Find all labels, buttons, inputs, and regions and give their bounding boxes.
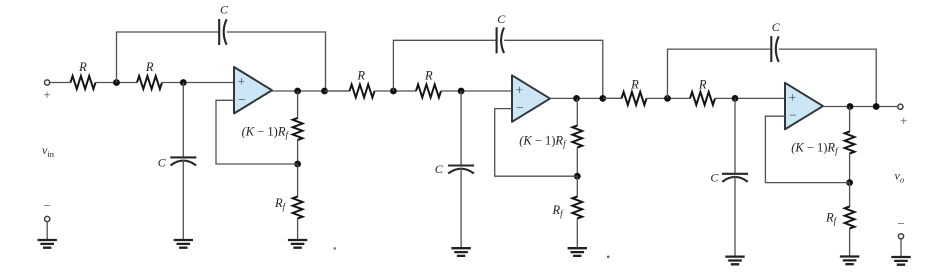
svg-text:C: C [772,20,781,34]
resistor Rf 3 [845,207,855,229]
node N [873,103,880,110]
wire node M down [849,107,851,133]
wire R3 to R4 [375,90,417,92]
svg-text:R: R [356,69,365,83]
label (K-1)Rf 3 [791,141,839,157]
node D [321,88,328,95]
feedback wire stage2 left [393,40,495,91]
wire output terminal to ground [900,239,902,257]
svg-text:R: R [630,78,639,92]
feedback wire stage3 right [779,49,876,106]
wire E to Rf1 [297,164,299,197]
svg-text:−: − [44,198,51,213]
label C5 [772,20,781,34]
feedback wire stage1 left [117,32,219,83]
node J [574,173,581,180]
feedback wire stage2 right [504,40,603,98]
wire J to U2 inverting input [495,109,578,177]
node O [846,179,853,186]
wire C2 to ground [182,160,184,241]
svg-text:C: C [158,156,167,170]
output terminal vo+ [898,104,903,109]
wire J to Rf2 [576,176,578,197]
speck 2 [607,255,610,258]
wire L down to C6 [734,98,736,173]
svg-text:Rf: Rf [825,211,838,227]
label C3 [497,12,506,26]
wire E to U1 inverting input [216,100,298,164]
capacitor C5 (feedback) [771,36,778,62]
node L [732,95,739,102]
node E [294,161,301,168]
svg-text:vo: vo [895,169,905,185]
svg-text:(K − 1)Rf: (K − 1)Rf [791,141,839,157]
feedback wire stage1 right [227,32,326,91]
node C [294,88,301,95]
svg-text:+: + [237,74,245,89]
label R6 [698,78,707,92]
svg-text:vin: vin [42,143,55,159]
wire R1 to R2 [96,82,138,84]
wire to node J [576,147,578,176]
resistor R3 [350,85,375,98]
feedback wire stage3 left [668,49,771,98]
capacitor C6 (shunt) [722,174,748,182]
node H [573,95,580,102]
wire G down to C4 [460,91,462,165]
ground (Rf3) [840,257,859,265]
label C6 [710,171,719,185]
label C2 [158,156,167,170]
resistor R5 [622,92,647,105]
label C1 [220,2,229,16]
svg-text:+: + [43,87,50,102]
wire U3 output [823,106,898,108]
wire R2 to op-amp U1 [162,82,234,84]
ground (output) [891,257,910,265]
svg-text:Rf: Rf [552,203,565,219]
svg-text:C: C [435,162,444,176]
label - (U2) [516,100,524,115]
svg-text:C: C [497,12,506,26]
resistor (K-1)Rf 2 [572,126,582,148]
ground (C6) [725,257,744,265]
label C4 [435,162,444,176]
label + (U1) [237,74,245,89]
ground (Rf1) [288,240,307,248]
wire U2 output [550,97,622,99]
label + (U2) [515,83,523,98]
svg-text:+: + [900,113,907,128]
resistor R4 [416,85,441,98]
resistor R2 [137,76,162,89]
wire node I to R5 [603,97,622,99]
node G [458,88,465,95]
wire to node E [297,140,299,165]
svg-text:C: C [710,171,719,185]
node F [390,88,397,95]
label R4 [424,69,433,83]
capacitor C1 (feedback) [219,19,226,45]
label R1 [78,60,87,74]
input low terminal [45,216,50,221]
label R5 [630,78,639,92]
resistor R1 [71,76,96,89]
node B [180,79,187,86]
ground (C4) [451,248,470,256]
resistor (K-1)Rf 1 [293,118,303,140]
svg-text:+: + [788,90,796,105]
node A [113,79,120,86]
wire terminal to ground [46,222,48,240]
wire Rf1 to ground [297,218,299,240]
svg-text:−: − [238,92,246,107]
label R2 [145,60,154,74]
label Rf 3 [825,211,838,227]
svg-text:(K − 1)Rf: (K − 1)Rf [519,133,567,149]
node I [599,95,606,102]
wire node H down [576,98,578,126]
svg-text:Rf: Rf [274,196,287,212]
wire B down to C2 [182,83,184,158]
resistor R6 [690,92,715,105]
wire R6 to op-amp U3 [715,97,785,99]
label vin [42,143,55,159]
label - (U1) [238,92,246,107]
svg-text:R: R [424,69,433,83]
output low terminal [898,234,903,239]
wire Rf2 to ground [576,218,578,248]
resistor Rf 2 [572,197,582,219]
label - (input low) [44,198,51,213]
node K [664,95,671,102]
label (K-1)Rf 2 [519,133,567,149]
label vo [895,169,905,185]
label R3 [356,69,365,83]
wire input to R1 [50,82,71,84]
svg-text:+: + [515,83,523,98]
label - (output low) [897,216,904,231]
wire Rf3 to ground [849,228,851,256]
ground (Rf2) [568,248,587,256]
wire O to U3 inverting input [765,116,849,182]
wire U1 output [272,90,350,92]
wire to node O [849,153,851,183]
wire C4 to ground [460,168,462,248]
node M [847,103,854,110]
label + (output) [900,113,907,128]
op-amp U3 [785,83,823,130]
ground (C2) [174,240,193,248]
label Rf 1 [274,196,287,212]
label (K-1)Rf 1 [242,124,290,140]
wire C6 to ground [734,176,736,257]
resistor Rf 1 [293,197,303,219]
wire node D to R3 [325,90,350,92]
svg-text:−: − [897,216,904,231]
capacitor C4 (shunt) [448,166,474,174]
label + (input) [43,87,50,102]
input terminal vin+ [45,80,50,85]
capacitor C3 (feedback) [497,27,504,53]
svg-text:R: R [78,60,87,74]
resistor (K-1)Rf 3 [845,132,855,154]
label - (U3) [789,108,797,123]
speck 1 [334,247,337,250]
wire O to Rf3 [849,183,851,207]
op-amp U1 [234,67,272,114]
svg-text:R: R [145,60,154,74]
op-amp U2 [512,75,550,122]
svg-text:−: − [789,108,797,123]
svg-text:(K − 1)Rf: (K − 1)Rf [242,124,290,140]
ground (input) [38,240,57,248]
wire R5 to R6 [647,97,691,99]
wire node C down [297,91,299,119]
capacitor C2 (shunt) [170,157,196,165]
wire R4 to op-amp U2 [441,90,512,92]
label + (U3) [788,90,796,105]
svg-text:−: − [516,100,524,115]
svg-text:C: C [220,2,229,16]
svg-text:R: R [698,78,707,92]
label Rf 2 [552,203,565,219]
